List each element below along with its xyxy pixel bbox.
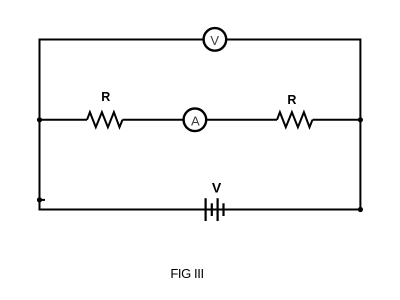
label R (right) [287, 93, 296, 107]
label R (left) [101, 90, 110, 104]
svg-text:R: R [101, 90, 110, 104]
wire bottom segment [40, 209, 361, 211]
label V (battery) [212, 179, 222, 195]
wire top-right segment [227, 39, 361, 41]
node left middle junction [37, 117, 42, 122]
node bottom-right junction [358, 207, 363, 212]
resistor R (right) [277, 112, 313, 127]
label FIG III caption [170, 266, 203, 281]
node bottom-left junction with stub [37, 197, 45, 202]
wire left vertical [39, 39, 41, 211]
voltmeter V [204, 28, 227, 51]
node right middle junction [358, 117, 363, 122]
resistor R (left) [87, 112, 123, 127]
wire middle segment between ammeter and right resistor [207, 119, 277, 121]
wire middle-right segment [313, 119, 361, 121]
ammeter A [184, 109, 207, 132]
svg-text:FIG III: FIG III [170, 266, 203, 281]
wire top-left segment [40, 39, 203, 41]
svg-text:V: V [212, 179, 222, 195]
wire middle-left segment [40, 119, 88, 121]
svg-text:A: A [191, 113, 200, 128]
svg-text:R: R [287, 93, 296, 107]
svg-text:V: V [210, 33, 219, 48]
wire middle segment between left resistor and ammeter [123, 119, 184, 121]
battery V [206, 198, 224, 221]
wire right vertical [359, 39, 361, 211]
